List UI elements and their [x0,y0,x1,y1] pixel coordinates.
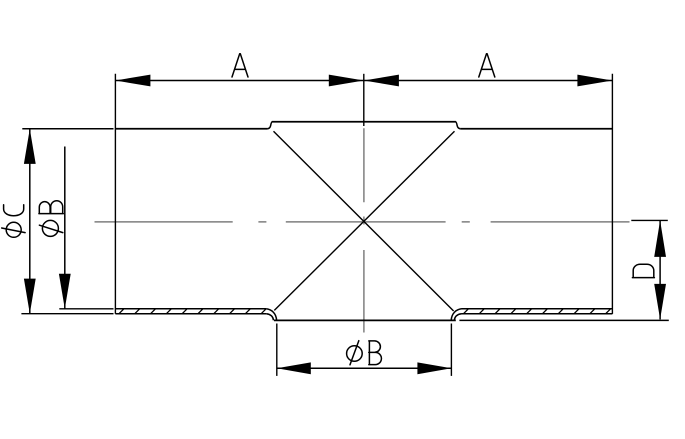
D top extension line [631,219,668,221]
top outer edge right section [460,128,612,130]
dimension line D (right vertical) [659,220,661,319]
phiC top extension line [22,128,113,130]
D bottom extension line [459,319,668,321]
phiC bottom extension line [21,313,113,315]
hatch marks right band [464,309,611,314]
label phiB (bottom) : phi glyph [347,341,363,365]
hatch marks left band [119,309,266,314]
bottom middle edge (branch opening rim) [274,319,456,321]
top outer edge left section [115,128,267,130]
label phiC (rotated) : C glyph [4,205,24,216]
X diagonal (top-left to bottom-right) [274,131,454,311]
top right step transition [456,122,461,129]
arrow A-right at right end [577,75,612,87]
arrow phiB down [59,274,71,309]
label A (left span) [232,54,248,77]
phiB bottom extension line [59,308,113,310]
vertical centerline (branch axis, dash-dot gray) [363,128,365,332]
arrow A-right at center [364,75,399,87]
bottom wall inner line left (sectioned band top) [115,308,266,310]
arrow phiC up [24,129,36,164]
bottom wall outer line right [462,313,613,315]
arrow bottom phiB right [417,362,451,374]
top middle edge (branch saddle) [272,121,456,123]
dimension line phiC (left vertical) [29,129,31,314]
label phiB (bottom) : B glyph [369,341,382,365]
bottom phiB right extension line [450,324,452,376]
label phiC (rotated) : phi glyph [2,222,25,237]
arrow phiC down [24,279,36,314]
bottom wall outer line left (sectioned band bottom) [115,313,266,315]
label phiB (rotated) : B glyph [39,201,63,214]
bottom wall inner line right [462,308,613,310]
arrow A-left at center [329,75,364,87]
bottom phiB left extension line [276,324,278,376]
body right end face + extension line [611,74,613,314]
arrow D up [654,220,666,257]
horizontal centerline (run axis, dash-dot gray) [95,221,630,223]
arrow D down [654,284,666,320]
label phiB (rotated) : phi glyph [39,220,62,236]
dimension line A (top, full span) [115,80,612,82]
label D (rotated) [632,264,654,277]
top left step transition [268,122,273,129]
arrow bottom phiB left [277,362,311,374]
dimension line phiB (bottom horizontal) [277,367,452,369]
arrow A-left at left end [115,75,150,87]
label A (right span) [479,54,495,77]
X diagonal (top-right to bottom-left) [274,131,454,310]
body left end face + extension line [114,74,116,314]
dimension line phiB (left vertical) [64,147,66,309]
right collar curl [451,309,461,321]
left collar curl [266,309,276,321]
center extension line for A dims [363,74,365,126]
